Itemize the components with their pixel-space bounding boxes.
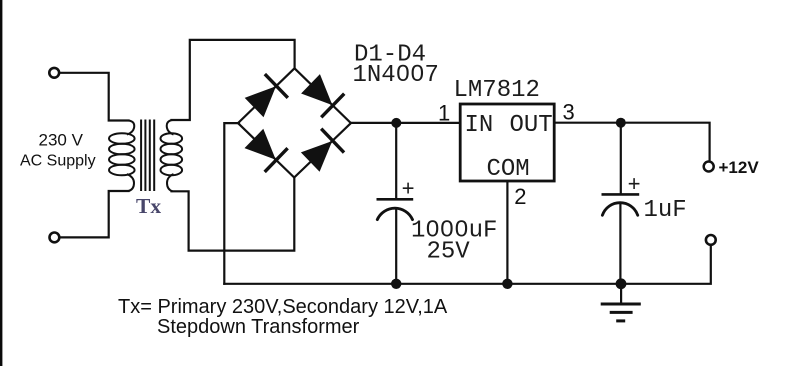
- terminal +12V output: [704, 162, 714, 172]
- wire: transformer secondary bottom to bridge bottom vertex: [172, 179, 295, 251]
- wire: bottom-left terminal to transformer primary bottom: [60, 191, 129, 237]
- svg-text:AC Supply: AC Supply: [20, 153, 96, 170]
- wire: LM7812 OUT (pin 3) to +12V terminal: [554, 123, 710, 161]
- svg-text:COM: COM: [487, 156, 530, 183]
- junction node rail below COM: [502, 279, 512, 289]
- capacitor C2 1uF top plate: [602, 193, 640, 196]
- border edge line left: [0, 0, 2, 366]
- terminal output return: [706, 235, 716, 245]
- terminal top-left (230V AC in): [49, 68, 59, 78]
- diode D3 (lower-left arm): [242, 127, 287, 172]
- wire: bridge left vertex to bottom rail: [224, 123, 239, 284]
- regulator U1 LM7812 box: [460, 104, 554, 181]
- diode D4 (lower-right arm): [299, 129, 344, 174]
- svg-text:LM7812: LM7812: [454, 77, 540, 104]
- svg-text:IN: IN: [465, 112, 494, 139]
- wire: ground stub: [620, 284, 622, 303]
- svg-text:1: 1: [438, 101, 450, 126]
- wire: LM7812 COM (pin 2) to bottom rail: [506, 181, 508, 284]
- bridge rectifier diamond outline: [238, 68, 351, 177]
- junction node rail at ground: [616, 278, 627, 289]
- svg-text:1uF: 1uF: [644, 197, 687, 224]
- junction node at regulator output: [616, 118, 626, 128]
- svg-text:3: 3: [563, 100, 575, 125]
- transformer T1 primary winding: [109, 121, 135, 192]
- junction node rail below C1: [391, 279, 401, 289]
- wire: top-left terminal to transformer primary top: [60, 73, 129, 121]
- svg-text:Tx: Tx: [136, 194, 161, 218]
- capacitor C1 1000uF top plate: [377, 198, 414, 201]
- transformer T1 core: [141, 120, 154, 192]
- wire: bottom rail: [224, 246, 711, 284]
- terminal bottom-left (230V AC in): [50, 233, 60, 243]
- wire: 1000uF capacitor to bottom rail: [395, 209, 397, 284]
- capacitor C1 1000uF curved plate: [377, 208, 412, 219]
- svg-text:Tx= Primary 230V,Secondary 12V: Tx= Primary 230V,Secondary 12V,1A: [118, 296, 448, 318]
- wire: junction to 1000uF capacitor: [395, 123, 397, 198]
- svg-text:Stepdown Transformer: Stepdown Transformer: [157, 316, 360, 338]
- svg-text:2: 2: [514, 184, 526, 209]
- svg-text:OUT: OUT: [510, 112, 553, 139]
- wire: bridge right vertex to LM7812 IN (pin 1): [351, 122, 460, 124]
- diode D1 (upper-left arm): [243, 74, 288, 119]
- ground symbol: [601, 304, 641, 321]
- svg-text:+12V: +12V: [719, 158, 760, 177]
- wire: transformer secondary top to bridge top vertex: [172, 40, 295, 120]
- wire: junction to 1uF capacitor: [620, 123, 622, 194]
- transformer T1 secondary winding: [161, 120, 183, 191]
- diode D2 (upper-right arm): [299, 72, 344, 117]
- wire: 1uF capacitor to bottom rail: [619, 203, 621, 284]
- svg-text:230 V: 230 V: [39, 131, 84, 150]
- capacitor C2 1uF curved plate: [602, 203, 637, 216]
- svg-text:25V: 25V: [427, 239, 471, 266]
- svg-text:1N4007: 1N4007: [353, 62, 439, 89]
- junction node at bridge output: [391, 118, 401, 128]
